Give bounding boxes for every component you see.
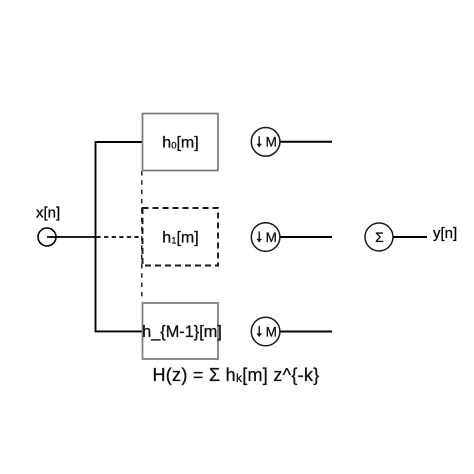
downsampler circle 1 (down-arrow M)	[251, 128, 280, 157]
wire after downsampler 3	[280, 331, 332, 333]
filter block h_{M-1}[m]	[143, 303, 219, 359]
wire after downsampler 1	[280, 141, 332, 143]
svg-text:M: M	[266, 324, 277, 339]
filter block h0[m]	[143, 114, 219, 171]
svg-text:Σ: Σ	[375, 229, 384, 245]
wire after downsampler 2	[280, 236, 332, 238]
svg-text:M: M	[266, 230, 277, 245]
svg-text:h1[m]: h1[m]	[162, 229, 198, 246]
svg-text:h0[m]: h0[m]	[162, 134, 198, 151]
svg-text:x[n]: x[n]	[36, 204, 60, 221]
downsampler circle 3	[251, 317, 280, 346]
wire: splitter vertical bus with branches to h0 and h_{M-1}	[96, 142, 143, 331]
wire: input line from node to splitter	[47, 236, 96, 238]
summing node sigma	[365, 223, 393, 251]
wire: dashed branch to h1	[97, 236, 142, 238]
wire: output line	[393, 236, 427, 238]
node: input node circle	[38, 228, 56, 246]
wire: dashed vertical ellipsis line between filter blocks	[141, 171, 143, 302]
svg-text:h_{M-1}[m]: h_{M-1}[m]	[142, 323, 222, 341]
filter block h1[m] (dashed highlight)	[143, 208, 219, 266]
svg-text:y[n]: y[n]	[433, 225, 457, 242]
downsampler circle 2	[251, 223, 280, 252]
svg-text:M: M	[266, 135, 277, 150]
